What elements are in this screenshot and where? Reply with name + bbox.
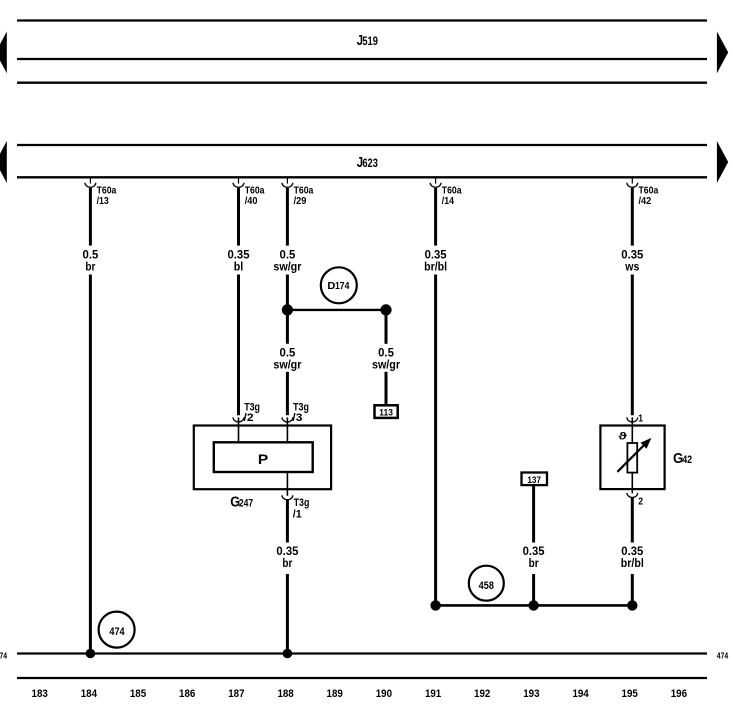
bottom frame line <box>17 677 707 679</box>
bus J519 top line <box>17 19 707 21</box>
label wire W3 0.5 sw/gr <box>273 249 301 274</box>
svg-text:519: 519 <box>362 34 378 48</box>
node junction W1 on rail <box>86 649 96 659</box>
label wire W3 0.5 sw/gr lower <box>273 346 301 371</box>
ground rail 474 line <box>17 652 707 654</box>
label wire W4 0.35 br/bl <box>424 249 447 274</box>
svg-text:br: br <box>529 557 539 570</box>
wire W3 middle segment <box>286 275 289 344</box>
svg-text:190: 190 <box>376 688 392 700</box>
svg-text:623: 623 <box>362 156 378 170</box>
svg-text:br/bl: br/bl <box>424 261 447 274</box>
label T3g/2 <box>244 402 261 424</box>
bus J623 left arrow <box>0 141 7 183</box>
svg-text:195: 195 <box>622 688 639 700</box>
svg-text:185: 185 <box>130 688 147 700</box>
svg-text:sw/gr: sw/gr <box>273 261 301 274</box>
component G42 box <box>600 426 664 490</box>
wire W1 upper segment <box>89 188 92 246</box>
connector box 137 <box>522 473 548 486</box>
wire W1 lower segment <box>89 275 92 654</box>
label wire W5 0.35 ws <box>621 249 643 274</box>
svg-text:/3: /3 <box>292 412 302 424</box>
svg-text:br: br <box>85 261 95 274</box>
label wire 0.35 br/bl below G42 <box>621 545 644 570</box>
wire W6 upper segment <box>532 485 535 542</box>
svg-text:191: 191 <box>425 688 442 700</box>
bus J519 right arrow <box>717 32 728 74</box>
pin T3g/3 connector at G247 <box>282 417 293 442</box>
wire W5 below G42 <box>631 498 634 543</box>
circle 458 <box>469 566 504 601</box>
svg-text:474: 474 <box>109 626 124 638</box>
svg-text:1: 1 <box>638 412 643 424</box>
label wire 0.35 br below G247 <box>276 545 298 570</box>
svg-text:0.35: 0.35 <box>621 249 643 262</box>
wire W3 below G247 <box>286 500 289 543</box>
svg-text:193: 193 <box>523 688 539 700</box>
wire W3 upper segment <box>286 188 289 246</box>
svg-text:sw/gr: sw/gr <box>372 358 400 371</box>
svg-text:189: 189 <box>327 688 343 700</box>
label wire W3b 0.5 sw/gr <box>372 346 400 371</box>
wire W5 upper segment <box>631 188 634 246</box>
svg-text:sw/gr: sw/gr <box>273 358 301 371</box>
svg-text:/29: /29 <box>294 195 307 207</box>
svg-text:/2: /2 <box>244 412 254 424</box>
pin 1 connector at G42 <box>627 417 638 443</box>
component G247 outer box <box>194 426 331 490</box>
label wire W1 0.5 br <box>83 249 99 274</box>
connector box 113 <box>375 405 398 418</box>
wire W2 upper segment <box>237 188 240 246</box>
node junction W6 <box>528 600 538 610</box>
wire W2 lower segment <box>237 275 240 416</box>
wire W3b upper segment <box>385 310 388 344</box>
svg-text:0.5: 0.5 <box>83 249 99 262</box>
svg-text:ϑ: ϑ <box>618 431 628 443</box>
svg-text:P: P <box>258 451 268 467</box>
svg-text:188: 188 <box>277 688 293 700</box>
node junction left on D174 branch <box>282 304 293 315</box>
node junction W4 <box>430 600 440 610</box>
label J623 <box>357 154 378 171</box>
svg-text:458: 458 <box>479 580 494 592</box>
wire W3 segment to G247 <box>286 372 289 415</box>
pin T3g/1 connector at G247 bottom <box>282 472 293 500</box>
resistor element in G42 <box>627 443 637 473</box>
svg-text:247: 247 <box>239 497 253 509</box>
node junction right on D174 branch <box>380 304 391 315</box>
pin 2 connector at G42 bottom <box>627 473 638 498</box>
svg-text:/1: /1 <box>293 509 302 521</box>
bus J519 bottom line <box>17 58 707 60</box>
bus J519 left arrow <box>0 32 7 74</box>
wire W3b lower segment <box>385 372 388 406</box>
svg-text:br/bl: br/bl <box>621 557 644 570</box>
label wire W6 0.35 br <box>523 545 545 570</box>
label T60a/13 <box>97 185 117 207</box>
svg-text:113: 113 <box>379 407 393 418</box>
svg-text:ws: ws <box>624 261 639 274</box>
svg-text:474: 474 <box>717 651 729 660</box>
wire W4 upper segment <box>434 188 437 246</box>
svg-text:192: 192 <box>474 688 490 700</box>
svg-text:184: 184 <box>81 688 98 700</box>
svg-text:2: 2 <box>638 496 643 508</box>
pin T60a/14 connector <box>430 178 441 187</box>
label G42 <box>673 450 692 467</box>
wire W4 lower segment <box>434 275 437 606</box>
node junction W5 <box>627 600 637 610</box>
svg-text:196: 196 <box>671 688 687 700</box>
circle 474 <box>99 612 135 648</box>
pin T60a/29 connector <box>282 178 293 187</box>
svg-text:42: 42 <box>682 454 692 466</box>
pin T60a/42 connector <box>627 178 638 187</box>
node junction W3 on rail <box>283 649 293 659</box>
wire W6 bottom segment <box>532 574 535 605</box>
svg-text:bl: bl <box>234 261 244 274</box>
svg-text:174: 174 <box>335 281 350 292</box>
bus J623 right arrow <box>717 141 728 183</box>
svg-text:187: 187 <box>228 688 244 700</box>
label T3g/3 <box>292 402 309 424</box>
arrow across resistor G42 <box>617 438 651 472</box>
wire W3 bottom segment <box>286 574 289 654</box>
bus J519 sub line <box>17 82 707 84</box>
svg-text:/40: /40 <box>245 195 258 207</box>
svg-text:0.5: 0.5 <box>280 249 296 262</box>
svg-text:0.35: 0.35 <box>425 249 447 262</box>
pin T3g/2 connector at G247 <box>233 417 244 442</box>
svg-text:194: 194 <box>572 688 589 700</box>
label T60a/14 <box>442 185 462 207</box>
svg-text:/14: /14 <box>442 195 454 207</box>
circle D174 <box>321 267 357 303</box>
svg-text:137: 137 <box>527 475 541 486</box>
label T60a/42 <box>639 185 659 207</box>
wire W5 bottom segment <box>631 574 634 605</box>
svg-text:/13: /13 <box>97 195 109 207</box>
wire W5 lower segment <box>631 275 634 416</box>
svg-text:0.35: 0.35 <box>228 249 250 262</box>
component G247 inner box P <box>214 442 313 472</box>
svg-text:br: br <box>282 557 292 570</box>
svg-text:474: 474 <box>0 651 8 660</box>
bus J623 bottom line <box>17 176 707 178</box>
pin T60a/40 connector <box>233 178 244 187</box>
label T60a/40 <box>245 185 265 207</box>
label G247 <box>230 493 253 510</box>
pin T60a/13 connector <box>85 178 96 187</box>
svg-text:186: 186 <box>179 688 195 700</box>
svg-text:T3g: T3g <box>294 497 310 509</box>
wire D174 branch horizontal <box>287 309 386 311</box>
bus J623 top line <box>17 144 707 146</box>
wire connecting line W4-W6-W5 <box>436 604 633 607</box>
label J519 <box>357 32 378 49</box>
label T60a/29 <box>294 185 314 207</box>
svg-text:183: 183 <box>32 688 48 700</box>
svg-text:/42: /42 <box>639 195 652 207</box>
label T3g/1 <box>293 497 310 521</box>
label wire W2 0.35 bl <box>228 249 250 274</box>
